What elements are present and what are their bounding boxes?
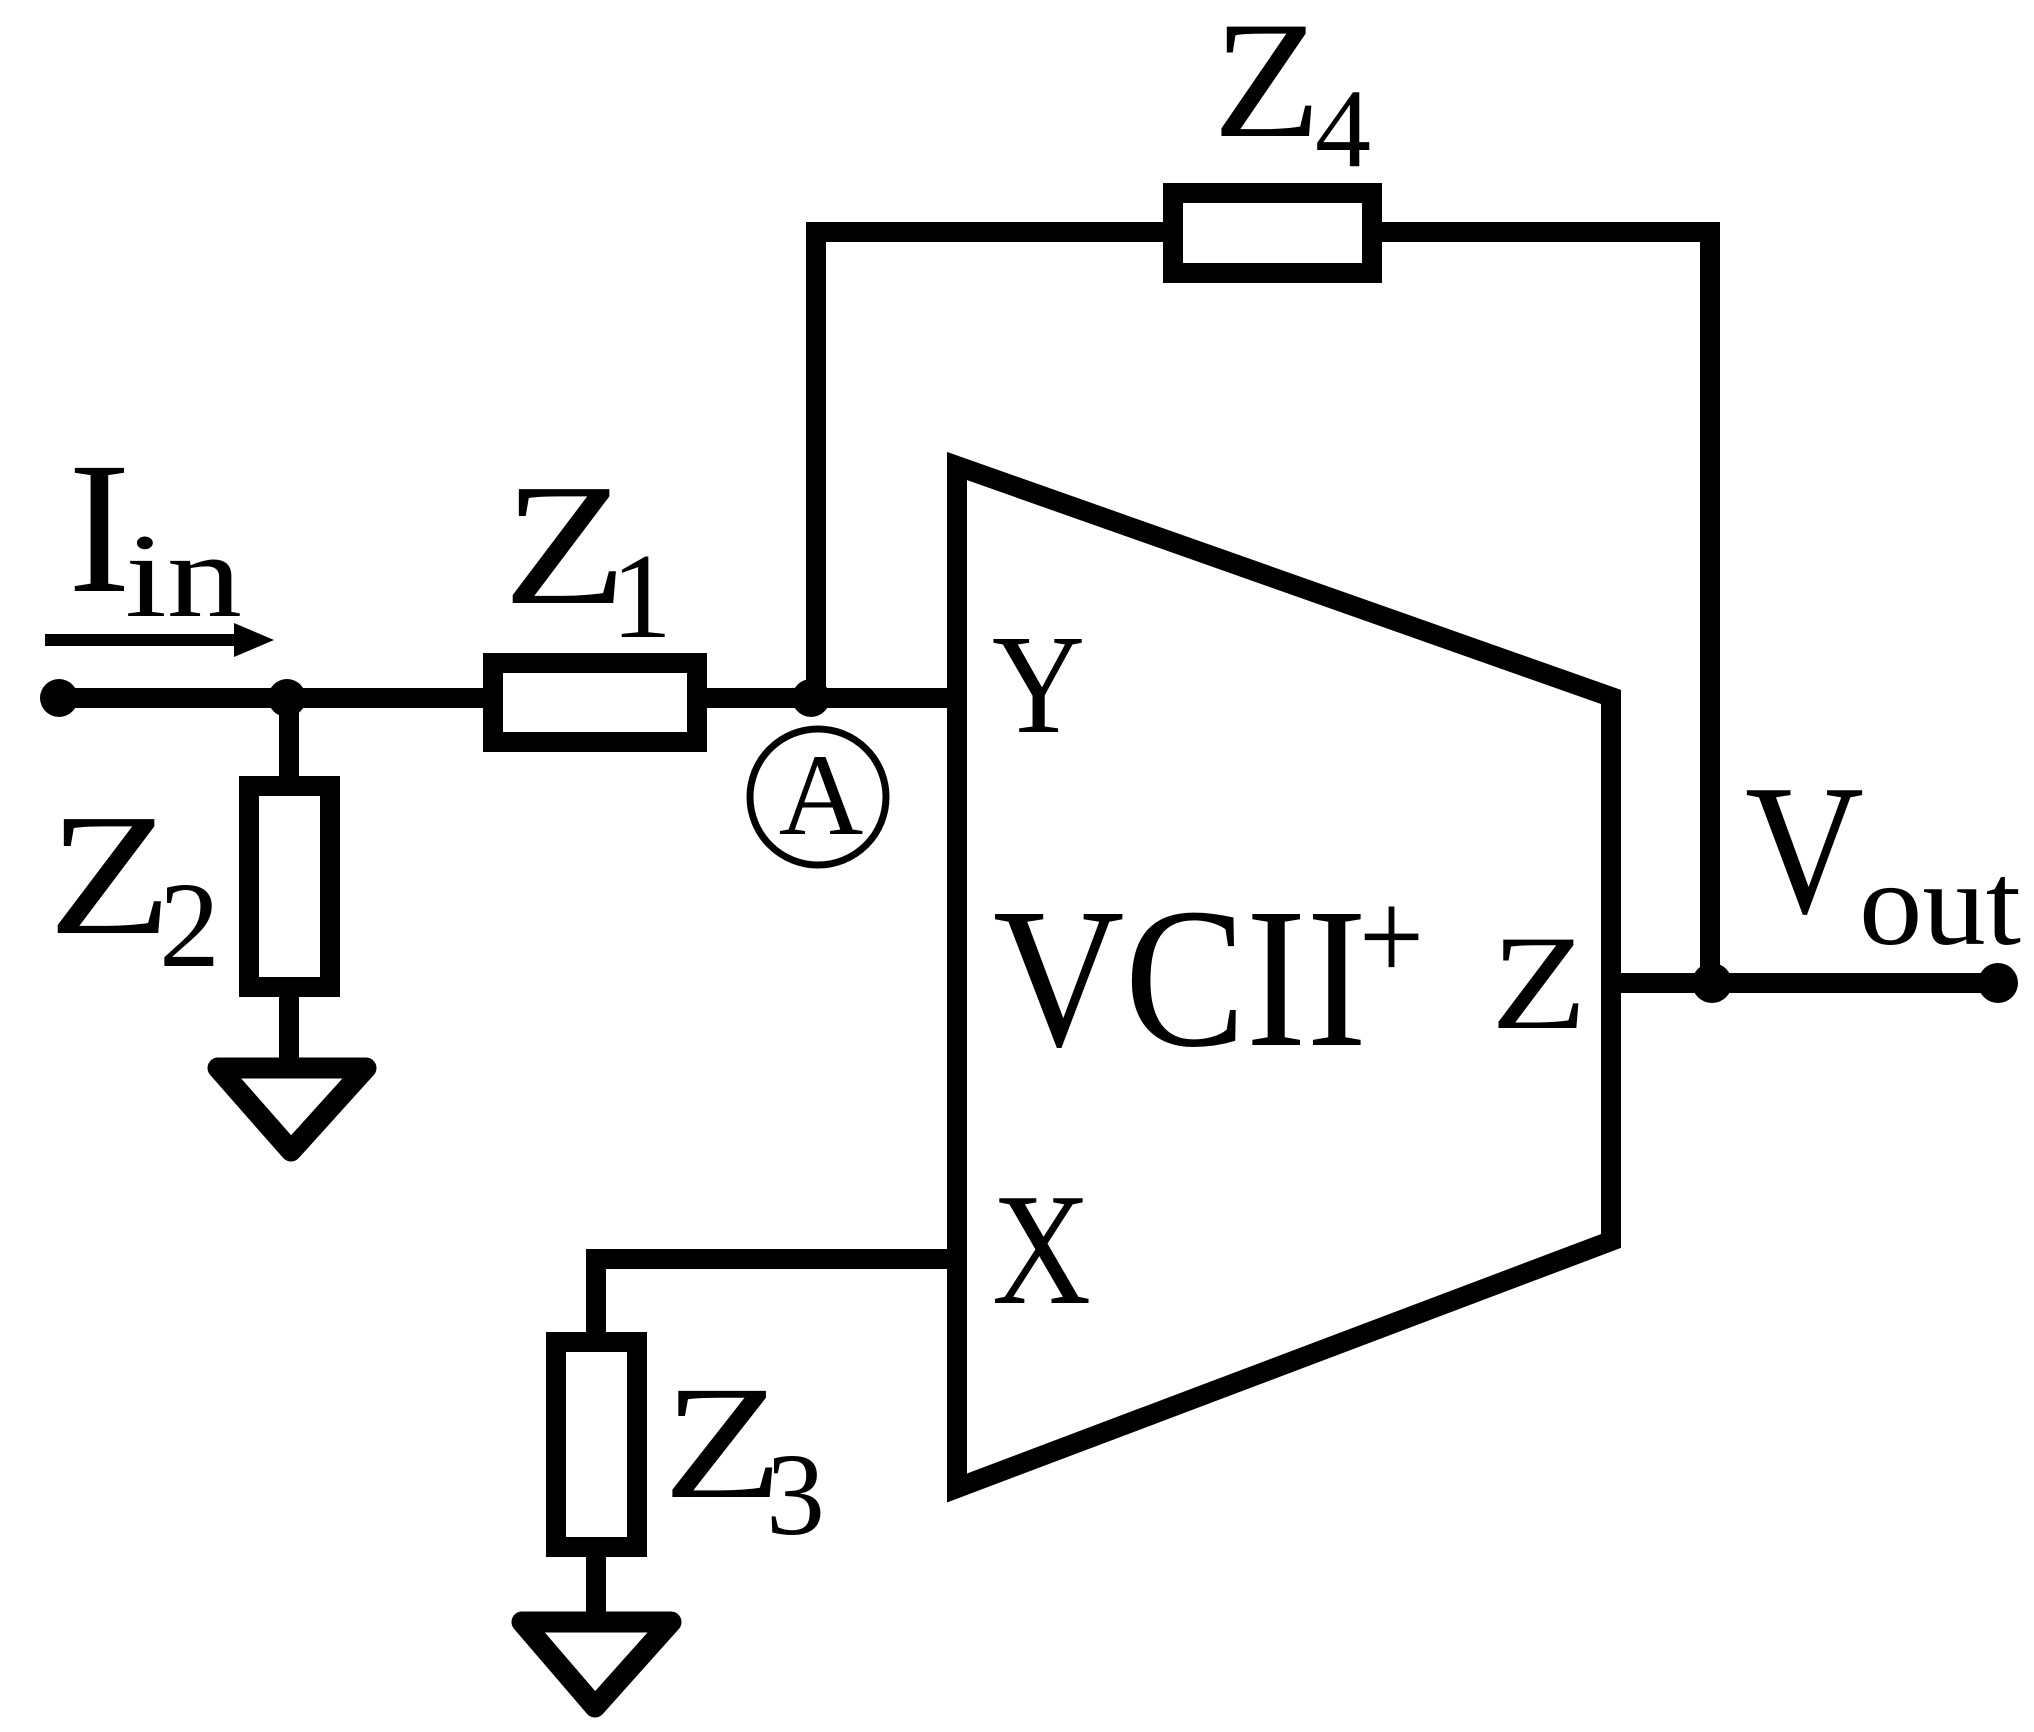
svg-text:A: A: [779, 731, 864, 860]
svg-text:Z: Z: [48, 778, 172, 971]
svg-text:Z: Z: [503, 448, 627, 641]
svg-text:4: 4: [1315, 67, 1371, 191]
svg-text:1: 1: [611, 529, 672, 664]
svg-text:X: X: [992, 1160, 1091, 1338]
svg-text:VCII: VCII: [993, 868, 1367, 1089]
svg-text:3: 3: [766, 1429, 825, 1560]
svg-text:Z: Z: [663, 1354, 783, 1533]
svg-text:V: V: [1745, 747, 1864, 953]
svg-text:I: I: [68, 423, 131, 632]
svg-text:2: 2: [159, 858, 220, 993]
svg-text:Y: Y: [992, 605, 1085, 763]
svg-text:out: out: [1859, 838, 2021, 970]
svg-text:Z: Z: [1213, 0, 1321, 173]
svg-text:in: in: [125, 509, 242, 642]
svg-text:Z: Z: [1491, 909, 1587, 1058]
svg-text:+: +: [1359, 865, 1424, 1009]
